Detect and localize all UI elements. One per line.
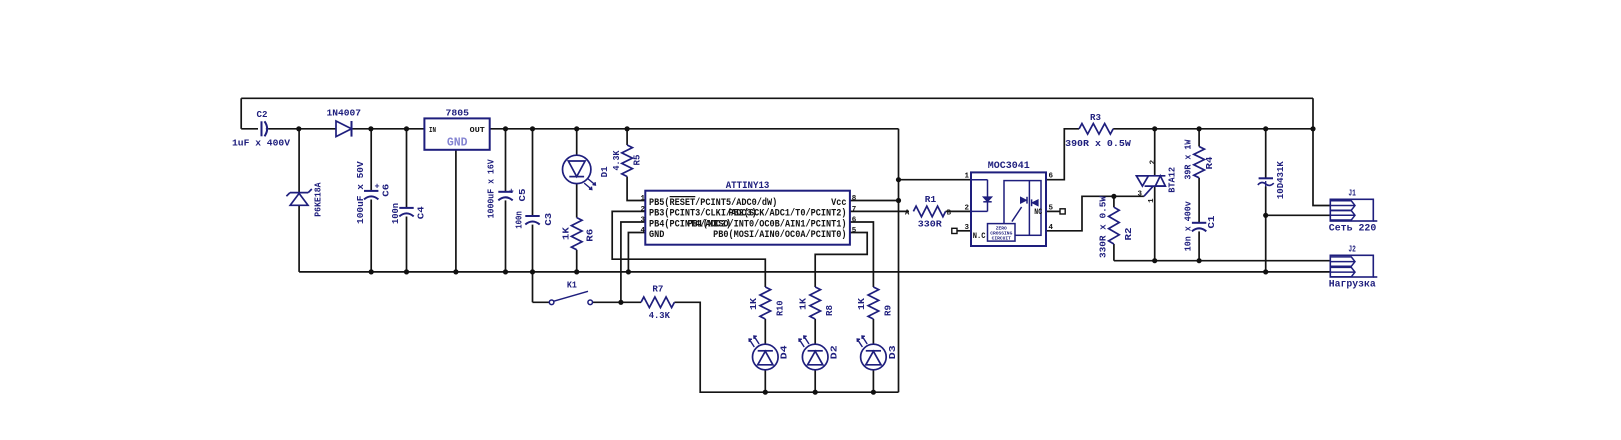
- wire triac T2 top lead: [1154, 129, 1156, 176]
- wire IC pin5 to R8: [815, 233, 867, 288]
- wire D1 cathode to R6: [576, 184, 578, 218]
- wire R4 top lead: [1198, 129, 1200, 147]
- svg-text:R4: R4: [1204, 156, 1215, 169]
- connector J1 Сеть 220: [1329, 188, 1378, 235]
- svg-text:D2: D2: [829, 345, 840, 359]
- svg-text:1: 1: [1148, 198, 1156, 203]
- svg-text:100uF x 50V: 100uF x 50V: [355, 161, 366, 224]
- wire MOC pin6 to R3: [1046, 129, 1079, 180]
- node C3 gnd: [530, 269, 535, 274]
- svg-text:J2: J2: [1348, 244, 1356, 255]
- svg-text:R8: R8: [824, 305, 835, 316]
- wire ground rail: [299, 271, 1330, 273]
- svg-text:6: 6: [1049, 173, 1054, 181]
- node triac T1: [1152, 258, 1157, 263]
- svg-text:1N4007: 1N4007: [327, 108, 362, 119]
- node R6 gnd: [574, 269, 579, 274]
- IC U1 ATTINY13: [641, 181, 857, 245]
- terminal MOC pin3 n.c.: [952, 228, 957, 233]
- wire R1 to MOC pin2: [946, 210, 971, 212]
- wire C3 node down to switch K1: [533, 272, 550, 302]
- svg-text:Vcc: Vcc: [831, 198, 846, 209]
- wire IC pin3 to switch node: [621, 222, 645, 302]
- svg-text:GND: GND: [447, 137, 468, 150]
- node varistor/J1: [1263, 213, 1268, 218]
- resistor R8 1K: [798, 287, 836, 319]
- resistor R7 4.3K: [641, 283, 674, 321]
- wire R6 bottom lead: [576, 250, 578, 272]
- capacitor C4 100n: [390, 203, 427, 224]
- LED D3: [857, 336, 898, 370]
- varistor RU1 10D431K: [1258, 161, 1286, 199]
- resistor R9 1K: [856, 287, 894, 319]
- svg-text:D1: D1: [599, 166, 610, 177]
- wire C2 right lead to node: [269, 128, 299, 130]
- svg-text:+: +: [509, 186, 514, 196]
- svg-text:1K: 1K: [561, 227, 572, 240]
- svg-text:3: 3: [1138, 191, 1143, 199]
- wire C3 top lead: [532, 129, 534, 216]
- wire IC pin2 to R10: [612, 211, 765, 287]
- LED D2: [799, 336, 840, 370]
- svg-text:10D431K: 10D431K: [1275, 161, 1286, 199]
- node C1 bottom: [1197, 258, 1202, 263]
- svg-text:C1: C1: [1206, 215, 1217, 228]
- node C6 top: [368, 126, 373, 131]
- svg-text:1K: 1K: [798, 298, 809, 310]
- wire top mains rail: [241, 97, 1313, 99]
- node Vcc/+5: [896, 198, 901, 203]
- svg-text:R3: R3: [1090, 112, 1101, 123]
- svg-text:PB5(RESET/PCINT5/ADC0/dW): PB5(RESET/PCINT5/ADC0/dW): [649, 197, 777, 209]
- svg-text:R6: R6: [585, 228, 596, 241]
- svg-text:3: 3: [641, 217, 646, 225]
- TVS diode P6KE18A: [286, 182, 323, 216]
- wire MOC pin3 stub: [957, 230, 971, 232]
- wire R5 bottom to IC pin1: [627, 177, 645, 201]
- wire P6KE18A top lead: [298, 129, 300, 193]
- node IC gnd: [626, 269, 631, 274]
- wire C4 bottom lead: [406, 217, 408, 272]
- wire load row to J2 pin1: [1114, 260, 1330, 262]
- svg-text:P6KE18A: P6KE18A: [313, 182, 324, 216]
- capacitor C5 1000uF 16V: [486, 159, 529, 218]
- svg-text:R7: R7: [652, 283, 663, 294]
- capacitor C3 100n: [514, 211, 555, 229]
- wire C5 bottom lead: [505, 200, 507, 272]
- wire R10 to D4: [764, 319, 766, 345]
- wire R9 to D3: [872, 319, 874, 345]
- svg-text:8: 8: [852, 195, 857, 203]
- wire varistor to J1 pin2: [1266, 214, 1331, 216]
- capacitor C6 100uF 50V: [355, 161, 392, 224]
- node C4 gnd: [404, 269, 409, 274]
- svg-text:MOC3041: MOC3041: [988, 161, 1030, 172]
- wire R5 top lead: [626, 129, 628, 145]
- svg-text:BTA12: BTA12: [1167, 167, 1178, 193]
- resistor R3 390R 0.5W: [1065, 112, 1131, 149]
- capacitor C2 1uF 400V: [232, 109, 290, 148]
- svg-text:A: A: [905, 209, 910, 217]
- svg-text:R5: R5: [632, 154, 643, 165]
- node R4 top: [1197, 126, 1202, 131]
- node 7805 gnd: [453, 269, 458, 274]
- wire D3 bottom lead: [872, 370, 874, 393]
- wire R2 bottom lead: [1113, 244, 1115, 261]
- wire 1N4007 cathode to 7805 IN: [352, 128, 424, 130]
- wire D1 top lead: [576, 129, 578, 155]
- svg-text:R2: R2: [1123, 227, 1134, 240]
- node R2/gate: [1111, 194, 1116, 199]
- connector J2 Нагрузка: [1329, 244, 1378, 291]
- LED D1: [563, 155, 611, 189]
- node C2/P6KE18A: [296, 126, 301, 131]
- wire node to 1N4007 anode: [299, 128, 336, 130]
- svg-text:PB1(MISO/INT0/OC0B/AIN1/PCINT1: PB1(MISO/INT0/OC0B/AIN1/PCINT1): [687, 218, 846, 230]
- wire C4 top lead: [406, 129, 408, 208]
- node right rail: [1310, 126, 1315, 131]
- svg-text:GND: GND: [649, 230, 664, 241]
- svg-text:5: 5: [1049, 205, 1054, 213]
- svg-text:K1: K1: [567, 280, 577, 291]
- wire MOC pin5 stub: [1046, 210, 1060, 212]
- wire P6KE18A bottom lead: [298, 206, 300, 272]
- svg-text:1000uF x 16V: 1000uF x 16V: [486, 159, 497, 218]
- svg-text:ATTINY13: ATTINY13: [726, 181, 770, 192]
- switch K1: [549, 280, 592, 305]
- node C6 gnd: [369, 269, 374, 274]
- resistor R4 39R 1W: [1183, 139, 1216, 179]
- svg-text:100n: 100n: [514, 211, 525, 229]
- node triac top: [1152, 126, 1157, 131]
- svg-text:2: 2: [641, 206, 646, 214]
- svg-text:B: B: [947, 209, 952, 217]
- wire D4 bottom lead: [764, 370, 766, 393]
- svg-text:7805: 7805: [446, 107, 470, 118]
- wire C3 bottom lead: [532, 225, 534, 272]
- svg-text:NC: NC: [1034, 208, 1042, 217]
- wire IC pin4 GND lead: [628, 233, 645, 272]
- svg-text:5: 5: [852, 227, 857, 235]
- svg-text:N.C: N.C: [973, 232, 986, 241]
- svg-text:4: 4: [641, 227, 646, 235]
- svg-text:IN: IN: [429, 127, 436, 135]
- node varistor/gnd: [1263, 269, 1268, 274]
- terminal MOC pin5 n.c.: [1060, 209, 1065, 214]
- diode D5 1N4007: [327, 108, 362, 137]
- node pin3/K1: [618, 300, 623, 305]
- svg-text:D3: D3: [887, 345, 898, 359]
- svg-text:2: 2: [965, 205, 970, 213]
- node D1 top: [574, 126, 579, 131]
- wire varistor top lead: [1265, 129, 1267, 179]
- voltage regulator U2 7805: [424, 107, 489, 150]
- wire R2 top lead: [1113, 196, 1115, 207]
- svg-text:39R x 1W: 39R x 1W: [1183, 139, 1194, 179]
- wire IC pin7 to R1: [850, 210, 909, 212]
- node D4 bottom: [763, 390, 768, 395]
- node C5 top: [503, 126, 508, 131]
- node R5 top: [625, 126, 630, 131]
- wire R3 to right rail: [1113, 128, 1313, 130]
- node D2 bottom: [813, 390, 818, 395]
- resistor R10 1K: [748, 287, 786, 319]
- node C5 gnd: [503, 269, 508, 274]
- svg-text:R10: R10: [774, 300, 785, 316]
- wire right rail drop to J1: [1313, 98, 1330, 205]
- wire 7805 GND lead: [455, 150, 457, 272]
- wire C2 left lead: [241, 128, 258, 130]
- svg-text:CIRCUIT: CIRCUIT: [992, 235, 1012, 241]
- svg-text:+: +: [375, 182, 380, 192]
- triac Q1 BTA12: [1136, 159, 1178, 203]
- svg-text:2: 2: [1150, 159, 1158, 164]
- svg-text:C4: C4: [416, 206, 427, 219]
- optocoupler U3 MOC3041: [965, 161, 1054, 246]
- svg-text:C2: C2: [257, 109, 268, 120]
- wire R4 to C1: [1198, 178, 1200, 223]
- svg-text:D4: D4: [779, 345, 790, 359]
- svg-text:4: 4: [1049, 224, 1054, 232]
- wire MOC pin1 to +5V rail: [899, 179, 972, 181]
- svg-text:R1: R1: [925, 194, 937, 205]
- svg-text:PB2(SCK/ADC1/T0/PCINT2): PB2(SCK/ADC1/T0/PCINT2): [729, 208, 847, 220]
- wire +5V rail right vertical: [898, 129, 900, 392]
- node C3 top: [530, 126, 535, 131]
- svg-text:Нагрузка: Нагрузка: [1329, 279, 1376, 290]
- wire varistor bottom lead: [1265, 187, 1267, 272]
- svg-text:C6: C6: [381, 183, 392, 196]
- svg-text:390R x 0.5W: 390R x 0.5W: [1065, 138, 1131, 149]
- svg-text:C3: C3: [543, 212, 554, 225]
- svg-text:J1: J1: [1348, 188, 1356, 199]
- resistor R5 4.3K: [611, 145, 643, 177]
- resistor R2 330R 0.5W: [1098, 196, 1135, 258]
- wire 7805 OUT +5V rail: [490, 128, 899, 130]
- wire C5 top lead: [505, 129, 507, 192]
- wire R7 to LED return: [674, 302, 898, 392]
- svg-text:3: 3: [965, 224, 970, 232]
- node MOC1/+5: [896, 177, 901, 182]
- svg-text:PB0(MOSI/AIN0/OC0A/PCINT0): PB0(MOSI/AIN0/OC0A/PCINT0): [713, 229, 846, 241]
- svg-text:1K: 1K: [748, 298, 759, 310]
- resistor R6 1K: [561, 218, 596, 250]
- capacitor C1 10n 400V: [1183, 201, 1218, 251]
- svg-text:1: 1: [641, 195, 646, 203]
- svg-text:7: 7: [852, 206, 857, 214]
- svg-text:1: 1: [965, 173, 970, 181]
- svg-text:1uF x 400V: 1uF x 400V: [232, 138, 290, 149]
- wire MOC pin4 to triac gate row: [1046, 196, 1144, 231]
- svg-text:6: 6: [852, 217, 857, 225]
- svg-text:10n x 400v: 10n x 400v: [1183, 201, 1194, 251]
- wire K1 to R7: [593, 301, 641, 303]
- node C4 top: [404, 126, 409, 131]
- node varistor top: [1263, 126, 1268, 131]
- wire C1 bottom lead: [1198, 231, 1200, 260]
- wire R8 to D2: [814, 319, 816, 345]
- svg-text:330R: 330R: [918, 219, 942, 230]
- svg-text:100n: 100n: [390, 203, 401, 224]
- svg-text:C5: C5: [517, 188, 528, 201]
- resistor R1 330R: [905, 194, 952, 230]
- wire left drop from top rail to C2: [240, 98, 242, 129]
- wire IC pin6 to R9: [850, 222, 874, 287]
- wire IC pin8 Vcc stub: [850, 200, 899, 202]
- svg-text:330R x 0.5W: 330R x 0.5W: [1098, 196, 1109, 258]
- svg-text:1K: 1K: [856, 298, 867, 310]
- svg-text:Сеть 220: Сеть 220: [1329, 223, 1377, 234]
- svg-text:OUT: OUT: [470, 127, 486, 135]
- wire C6 top lead: [370, 129, 372, 191]
- svg-text:R9: R9: [882, 305, 893, 316]
- wire C6 bottom lead: [370, 200, 372, 272]
- LED D4: [749, 336, 790, 370]
- wire triac T1 bottom lead: [1154, 186, 1156, 261]
- wire D2 bottom lead: [814, 370, 816, 393]
- node D3 bottom: [871, 390, 876, 395]
- svg-text:4.3K: 4.3K: [611, 150, 622, 170]
- svg-text:4.3K: 4.3K: [649, 310, 670, 321]
